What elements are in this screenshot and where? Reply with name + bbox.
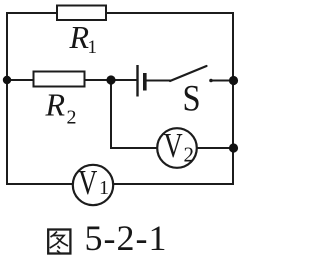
voltmeter V2 circle — [157, 128, 197, 168]
svg-text:2: 2 — [184, 143, 195, 167]
wire battery to switch — [145, 80, 171, 82]
wire middle row — [7, 79, 137, 81]
svg-text:R: R — [69, 19, 90, 55]
node junction R2 right — [106, 75, 115, 84]
node junction switch right — [229, 76, 238, 85]
wire bottom — [6, 183, 234, 185]
wire top — [6, 12, 234, 14]
wire left — [6, 12, 8, 185]
wire V2 branch vertical — [111, 80, 158, 148]
svg-text:2: 2 — [67, 107, 77, 129]
svg-text:5-2-1: 5-2-1 — [85, 218, 168, 258]
svg-text:V: V — [78, 162, 98, 201]
battery long plate — [136, 65, 138, 97]
svg-text:R: R — [45, 87, 66, 123]
wire right — [232, 12, 234, 185]
caption glyph tu (figure) — [48, 230, 70, 254]
wire switch to right — [210, 80, 233, 82]
svg-text:1: 1 — [88, 37, 98, 58]
svg-text:1: 1 — [99, 177, 109, 199]
wire V2 to right — [197, 147, 234, 149]
node junction left R2 — [3, 76, 11, 84]
resistor R2 — [34, 72, 85, 87]
resistor R1 — [57, 6, 106, 21]
switch S blade — [170, 66, 207, 81]
svg-text:V: V — [164, 125, 184, 164]
node junction V2 right — [229, 143, 238, 152]
battery short plate — [143, 73, 147, 91]
switch right contact — [209, 79, 213, 83]
voltmeter V1 circle — [73, 165, 113, 205]
svg-text:S: S — [183, 78, 201, 119]
